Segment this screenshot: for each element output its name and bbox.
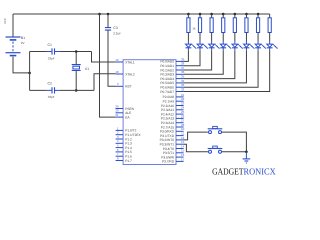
svg-text:C2: C2 — [48, 81, 53, 85]
pin 7 P1.6 — [116, 152, 132, 158]
pin 35 P0.4/AD4 — [160, 75, 184, 81]
node rail tap 7 — [257, 13, 260, 16]
capacitor C3 — [105, 28, 111, 31]
wire R7 to D7 — [257, 33, 259, 42]
wire R8 to D8 — [269, 33, 271, 42]
wire R6 to D6 — [245, 33, 247, 42]
wire button 2 to ground node — [222, 151, 247, 153]
pin 22 P2.1/A9 — [163, 97, 185, 103]
wire battery negative to loop — [13, 57, 30, 73]
LED D2 — [197, 41, 208, 50]
wire D1 to pin P0.0 — [184, 50, 189, 61]
pin 12 P3.2/INT0 — [160, 136, 185, 142]
resistor R8 1k — [268, 18, 271, 33]
svg-text:31: 31 — [115, 113, 119, 117]
pin 1 P1.0/T2 — [116, 126, 137, 132]
node rail tap 3 — [210, 13, 213, 16]
svg-text:B1: B1 — [21, 36, 25, 40]
wire rail to EA pin — [100, 14, 116, 117]
wire to C1 left — [30, 51, 47, 53]
wire C1 to XTAL1 riser — [60, 51, 92, 53]
pin 16 P3.6/WR — [161, 153, 184, 159]
pin 9 RST — [116, 82, 132, 88]
wire battery positive lead — [12, 14, 14, 37]
ground — [243, 152, 251, 163]
pin 4 P1.3 — [116, 139, 132, 145]
wire P3.2 to button 1 — [184, 132, 208, 140]
svg-text:P0.7/AD7: P0.7/AD7 — [160, 90, 174, 94]
svg-text:2.2uF: 2.2uF — [113, 32, 121, 36]
wire crystal bottom lead — [75, 71, 77, 91]
svg-text:32: 32 — [181, 87, 185, 91]
node rail tap 1 — [187, 13, 190, 16]
pin 24 P2.3/A11 — [161, 106, 185, 112]
svg-text:17: 17 — [181, 157, 185, 161]
wire R5 to D5 — [234, 33, 236, 42]
svg-text:GADGET: GADGET — [212, 167, 244, 177]
svg-text:RONICX: RONICX — [244, 167, 277, 177]
node rail/EA junction — [98, 13, 101, 16]
pin 31 EA — [115, 113, 130, 119]
LED D1 — [186, 41, 197, 50]
svg-text:XTAL1: XTAL1 — [125, 60, 135, 64]
svg-text:C3: C3 — [113, 26, 118, 30]
wire D7 to pin P0.6 — [184, 50, 258, 87]
wire rail to R2 — [199, 14, 201, 18]
wire crystal top lead — [75, 52, 77, 65]
pin 36 P0.3/AD3 — [160, 70, 184, 76]
pin 11 P3.1/TXD — [160, 132, 184, 138]
wire rail to R8 — [269, 14, 271, 18]
wire VCC top rail — [13, 13, 270, 15]
svg-text:RST: RST — [125, 85, 131, 89]
battery B1 9V — [6, 37, 21, 56]
pin 2 P1.1/T2EX — [116, 131, 142, 137]
node crystal bottom junction — [75, 89, 78, 92]
svg-text:1k: 1k — [192, 27, 196, 31]
node rail tap 5 — [234, 13, 237, 16]
svg-text:P1.7: P1.7 — [125, 159, 132, 163]
LED D6 — [244, 41, 255, 50]
pin 30 ALE — [115, 109, 131, 115]
svg-text:33pF: 33pF — [48, 95, 55, 99]
LED D4 — [220, 41, 231, 50]
node battery/loop junction — [28, 72, 31, 75]
pin 39 P0.0/AD0 — [160, 57, 184, 63]
resistor R2 1k — [198, 18, 201, 33]
wire rail to R7 — [257, 14, 259, 18]
LED D5 — [232, 41, 243, 50]
wire D3 to pin P0.2 — [184, 50, 212, 70]
push button S2 — [208, 146, 223, 153]
push button S1 — [208, 126, 223, 133]
wire button 1 to ground rail — [222, 132, 247, 152]
LED D3 — [209, 41, 220, 50]
pin 33 P0.6/AD6 — [160, 83, 184, 89]
LED D7 — [255, 41, 266, 50]
wire C3 to RST pin — [108, 30, 116, 86]
node rail/C3 junction — [107, 13, 110, 16]
pin 21 P2.0/A8 — [163, 93, 185, 99]
wire D5 to pin P0.4 — [184, 50, 235, 78]
node ground junction — [245, 151, 248, 154]
svg-text:33pF: 33pF — [48, 57, 55, 61]
svg-text:C1: C1 — [48, 43, 53, 47]
resistor R3 1k — [210, 18, 213, 33]
pin 29 PSEN — [115, 104, 134, 110]
wire loop left vertical — [29, 52, 31, 91]
pin 14 P3.4/T0 — [163, 144, 185, 150]
pin 37 P0.2/AD2 — [160, 66, 184, 72]
pin 13 P3.3/INT1 — [160, 140, 185, 146]
node rail tap 6 — [245, 13, 248, 16]
svg-text:P3.7/RD: P3.7/RD — [162, 160, 175, 164]
wire C2 to XTAL2 riser — [60, 89, 94, 91]
wire rail to R4 — [222, 14, 224, 18]
wire D4 to pin P0.3 — [184, 50, 224, 74]
wire rail to C3 — [107, 14, 109, 27]
svg-text:VCC: VCC — [3, 18, 7, 24]
capacitor C2 — [46, 87, 59, 93]
IC U1 AT89C51 8051 microcontroller body — [123, 60, 176, 165]
wire rail to R5 — [234, 14, 236, 18]
wire D6 to pin P0.5 — [184, 50, 247, 83]
node rail tap 2 — [199, 13, 202, 16]
pin 3 P1.2 — [116, 135, 132, 141]
wire R1 to D1 — [187, 33, 189, 42]
pin 23 P2.2/A10 — [161, 101, 185, 107]
wire D8 to pin P0.7 — [184, 50, 270, 91]
wire R3 to D3 — [211, 33, 213, 42]
svg-text:X1: X1 — [85, 67, 89, 71]
svg-text:19: 19 — [115, 58, 119, 62]
wire D2 to pin P0.1 — [184, 50, 200, 65]
wire to XTAL1 pin — [92, 52, 116, 63]
pin 5 P1.4 — [116, 144, 132, 150]
pin 6 P1.5 — [116, 148, 132, 154]
pin 8 P1.7 — [116, 156, 132, 162]
wire R4 to D4 — [222, 33, 224, 42]
svg-text:9V: 9V — [21, 41, 25, 45]
wire to C2 left — [30, 89, 47, 91]
LED D8 — [267, 41, 278, 50]
pin 26 P2.5/A13 — [161, 114, 185, 120]
pin 34 P0.5/AD5 — [160, 79, 184, 85]
node crystal top junction — [75, 50, 78, 53]
wire rail to R1 — [187, 14, 189, 18]
pin 32 P0.7/AD7 — [160, 87, 184, 93]
svg-text:18: 18 — [115, 70, 119, 74]
pin 38 P0.1/AD1 — [160, 62, 184, 68]
pin 25 P2.4/A12 — [161, 110, 185, 116]
wire R2 to D2 — [199, 33, 201, 42]
pin 28 P2.7/A15 — [161, 123, 185, 129]
wire to XTAL2 pin — [94, 74, 116, 91]
wire P3.3 to button 2 — [184, 144, 208, 152]
resistor R5 1k — [233, 18, 236, 33]
pin 15 P3.5/T1 — [163, 149, 185, 155]
capacitor C1 — [46, 48, 59, 54]
svg-text:XTAL2: XTAL2 — [125, 72, 135, 76]
node rail tap 4 — [222, 13, 225, 16]
wire rail to R3 — [211, 14, 213, 18]
resistor R4 1k — [222, 18, 225, 33]
pin 10 P3.0/RXD — [160, 127, 185, 133]
pin 19 XTAL1 — [115, 58, 135, 64]
crystal X1 — [72, 65, 81, 71]
wire rail to R6 — [245, 14, 247, 18]
resistor R6 1k — [245, 18, 248, 33]
resistor R1 1k — [187, 18, 190, 33]
pin 27 P2.6/A14 — [161, 119, 185, 125]
pin 17 P3.7/RD — [162, 157, 185, 163]
pin 18 XTAL2 — [115, 70, 135, 76]
resistor R7 1k — [256, 18, 259, 33]
